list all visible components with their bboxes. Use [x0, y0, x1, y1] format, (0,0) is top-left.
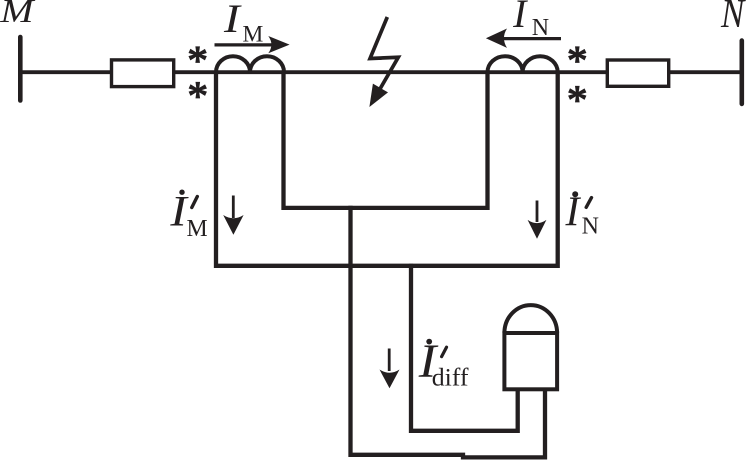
arrow I'diff down — [380, 349, 400, 389]
breaker QF1 (left rectangle) — [112, 60, 174, 87]
relay KD dome — [504, 305, 557, 333]
CT TA-M (left current transformer arcs) — [216, 56, 284, 72]
label I'diff — [418, 335, 469, 392]
wire main transmission line M-N — [20, 70, 742, 74]
bus bar N — [739, 41, 744, 104]
svg-text:I: I — [223, 0, 242, 41]
breaker QF2 (right rectangle) — [607, 60, 668, 86]
arrow I_N (left) — [486, 29, 561, 48]
fault lightning bolt — [369, 17, 398, 107]
arrow I'N down — [528, 201, 547, 239]
svg-text:M: M — [0, 0, 36, 29]
arrow I'M down — [223, 196, 243, 235]
svg-text:*: * — [567, 76, 588, 122]
label I_N — [512, 0, 549, 41]
bus bar M — [18, 37, 23, 101]
label I'N — [565, 190, 599, 240]
CT TA-N (right current transformer arcs) — [488, 56, 558, 72]
wire: CT secondary outer loop (left lead down, bus, right lead up) — [216, 72, 558, 266]
svg-text:diff: diff — [432, 363, 469, 392]
svg-text:*: * — [188, 73, 209, 119]
label I'M — [169, 188, 207, 242]
svg-text:M: M — [187, 216, 208, 242]
relay KD body — [504, 333, 557, 389]
wire: CT secondary inner loop (bridge between inner leads) — [284, 72, 488, 208]
label I_M — [223, 0, 264, 48]
svg-text:I: I — [565, 190, 582, 236]
wire: tap from bus down and over to relay left lead — [411, 264, 518, 431]
arrow I_M (right) — [215, 36, 290, 53]
svg-text:I: I — [512, 0, 528, 36]
wire: differential branch from bridge center down, bottom run, relay right lead — [351, 206, 546, 458]
svg-text:N: N — [720, 0, 746, 37]
svg-text:N: N — [582, 214, 599, 240]
